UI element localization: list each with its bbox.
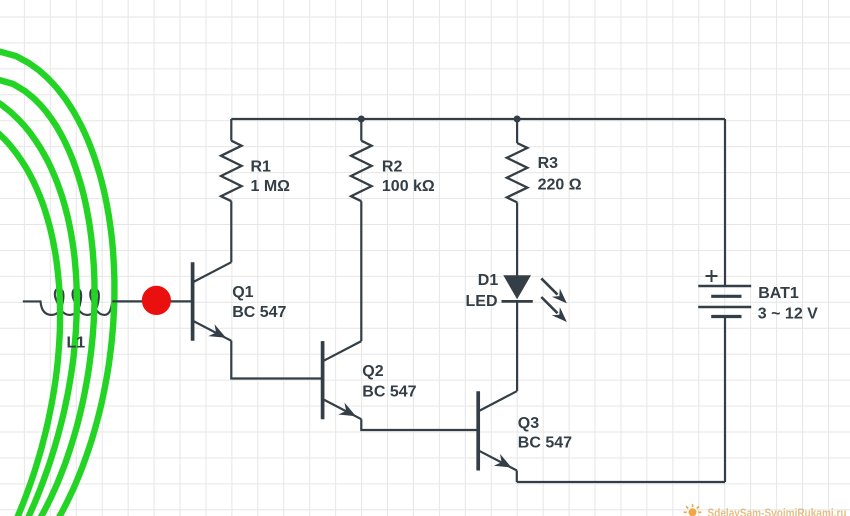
svg-text:Q3: Q3	[518, 415, 539, 432]
resistor R2	[351, 141, 372, 202]
resistor R3	[507, 143, 528, 202]
wire: R2 top stub	[360, 119, 362, 141]
inductor L1	[23, 289, 113, 315]
wire: top rail	[231, 118, 725, 120]
transistor Q2	[323, 341, 362, 419]
svg-text:R1: R1	[251, 159, 272, 176]
transistor Q3	[478, 391, 517, 470]
resistor R1	[221, 141, 242, 202]
svg-text:220 Ω: 220 Ω	[538, 177, 582, 194]
svg-text:L1: L1	[67, 335, 86, 352]
wire: Q2 emitter to Q3 base	[361, 419, 478, 430]
svg-text:BC 547: BC 547	[362, 383, 416, 400]
field line arc 3	[0, 91, 77, 516]
LED light arrow 1	[541, 278, 567, 303]
wire: LED cathode to Q3 collector	[516, 300, 518, 391]
svg-text:1 MΩ: 1 MΩ	[251, 178, 291, 195]
wire: Q3 emitter to bottom rail	[516, 471, 518, 483]
wire: R1 top stub	[230, 119, 232, 141]
svg-text:LED: LED	[466, 293, 498, 310]
svg-text:Q2: Q2	[362, 363, 383, 380]
svg-text:BAT1: BAT1	[758, 285, 799, 302]
field line arc 1 (outer)	[0, 49, 114, 516]
svg-text:BC 547: BC 547	[518, 435, 572, 452]
wire: Q1 emitter to Q2 base	[231, 341, 322, 379]
svg-text:R3: R3	[538, 155, 559, 172]
LED D1 cathode bar	[502, 300, 533, 303]
watermark sun icon	[684, 504, 702, 516]
junction node at R3 top	[514, 116, 521, 123]
svg-text:R2: R2	[382, 159, 403, 176]
svg-text:3 ~ 12 V: 3 ~ 12 V	[758, 305, 818, 322]
wire: R1 bottom to Q1 collector	[230, 201, 232, 262]
battery plus sign	[706, 270, 718, 282]
svg-text:100 kΩ: 100 kΩ	[382, 178, 435, 195]
wire: bottom rail	[517, 481, 725, 483]
svg-text:Q1: Q1	[232, 284, 253, 301]
junction node at R2 top	[358, 116, 365, 123]
svg-text:BC 547: BC 547	[232, 304, 286, 321]
wire: R3 bottom to LED anode	[516, 202, 518, 276]
node: red antenna pickup dot	[142, 286, 171, 315]
wire: battery bottom to bottom rail	[724, 317, 726, 483]
wire: coil to Q1 base	[112, 300, 192, 302]
svg-text:D1: D1	[478, 272, 499, 289]
battery BAT1 plates	[698, 286, 751, 317]
field line arc 2	[0, 77, 94, 516]
LED D1 triangle	[503, 275, 531, 299]
field line arc 4 (inner)	[0, 112, 60, 516]
transistor Q1	[193, 262, 232, 341]
wire: R3 top stub	[516, 119, 518, 143]
wire: R2 bottom to Q2 collector	[360, 201, 362, 341]
LED light arrow 2	[541, 297, 567, 322]
svg-text:SdelaySam-SvoimiRukami.ru: SdelaySam-SvoimiRukami.ru	[708, 506, 847, 516]
wire: right rail battery top	[724, 119, 726, 286]
